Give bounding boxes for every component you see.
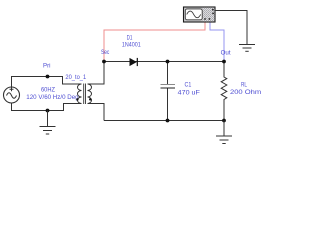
capacitor C1 plates [161,84,176,86]
wire: main top rail Sec to Out [104,61,224,63]
svg-text:1N4001: 1N4001 [122,42,141,49]
node C1 bottom [166,119,170,123]
svg-text:200 Ohm: 200 Ohm [230,89,262,96]
svg-text:60HZ: 60HZ [41,86,55,93]
wire: blue probe wire scope channel B to Out [210,22,224,61]
wire: secondary top lead up to Sec node [88,62,105,85]
svg-text:20_to_1: 20_to_1 [65,74,86,81]
svg-text:120 V/60 Hz/0 Deg: 120 V/60 Hz/0 Deg [26,94,78,101]
svg-text:Out: Out [221,49,231,56]
junction dot bottom rail at ground [46,109,50,113]
diode D1 1N4001 [130,58,137,66]
node Pri (junction dot on top rail) [46,75,50,79]
wire: scope to ground [215,11,247,45]
svg-text:470 uF: 470 uF [178,89,200,96]
node RL bottom [222,119,226,123]
wire: source top lead + Pri top rail + step down to transformer primary top [12,77,82,88]
node C1 top [166,60,170,64]
wire: red probe wire scope channel A to Sec [104,22,205,61]
wire: transformer primary bottom lead + bottom rail back to source [12,103,82,111]
svg-text:Pri: Pri [43,62,51,69]
svg-text:C1: C1 [185,82,192,89]
wire: bottom rail to RL ground [104,120,224,122]
resistor RL [221,62,227,121]
AC source V1 [4,87,20,103]
ground GND1 (primary circuit ground) [40,111,56,135]
wire: secondary bottom lead down to bottom rail [88,104,105,121]
svg-text:RL: RL [241,82,247,89]
svg-text:Sec: Sec [101,49,110,56]
capacitor C1 branch wires [167,62,169,121]
ground GND2 (under RL) [216,121,232,144]
node Sec [102,60,106,64]
svg-text:D1: D1 [127,35,133,42]
oscilloscope XSC1 [184,7,216,22]
transformer T1 20_to_1 [78,84,92,105]
node Out [222,60,226,64]
transformer polarity dot left [76,98,78,100]
transformer polarity dot right [89,98,91,100]
ground GND3 (scope ground) [239,45,255,52]
